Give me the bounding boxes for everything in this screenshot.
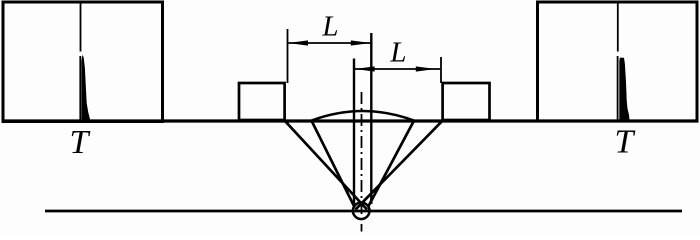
right probe (443, 83, 490, 120)
weld cap arc (312, 111, 415, 121)
svg-text:L: L (389, 37, 406, 69)
bottom surface line (45, 210, 682, 213)
svg-text:T: T (615, 124, 636, 161)
right echo pulse (619, 58, 629, 120)
right CRT screen box (538, 2, 698, 121)
root gap line left / dim2 extension (353, 59, 355, 205)
dimension 2 arrowhead left (355, 66, 375, 71)
dimension 2 extension line right (440, 57, 442, 83)
dimension 1 extension line left (287, 29, 289, 83)
right screen sweep line (617, 3, 619, 51)
dimension 2 arrowhead right (416, 66, 436, 71)
left CRT screen box (3, 2, 163, 122)
dimension 1 arrowhead right (351, 40, 371, 45)
dimension 2 line (355, 68, 440, 70)
dimension 1 line (288, 42, 370, 44)
weld centerline (dash-dot) (361, 92, 363, 232)
weld groove right side (368, 121, 414, 207)
svg-text:L: L (321, 11, 338, 43)
weld groove left side (312, 121, 355, 207)
test surface line (2, 119, 698, 122)
left echo pulse (81, 55, 90, 120)
weld root circle (353, 203, 370, 220)
beam path from right probe (356, 121, 443, 210)
svg-text:T: T (70, 124, 91, 161)
root gap line right / dim1 extension (370, 33, 372, 204)
left screen sweep line (80, 3, 82, 51)
left probe (239, 83, 285, 120)
beam path from left probe (285, 121, 367, 210)
dimension 1 arrowhead left (288, 40, 308, 45)
